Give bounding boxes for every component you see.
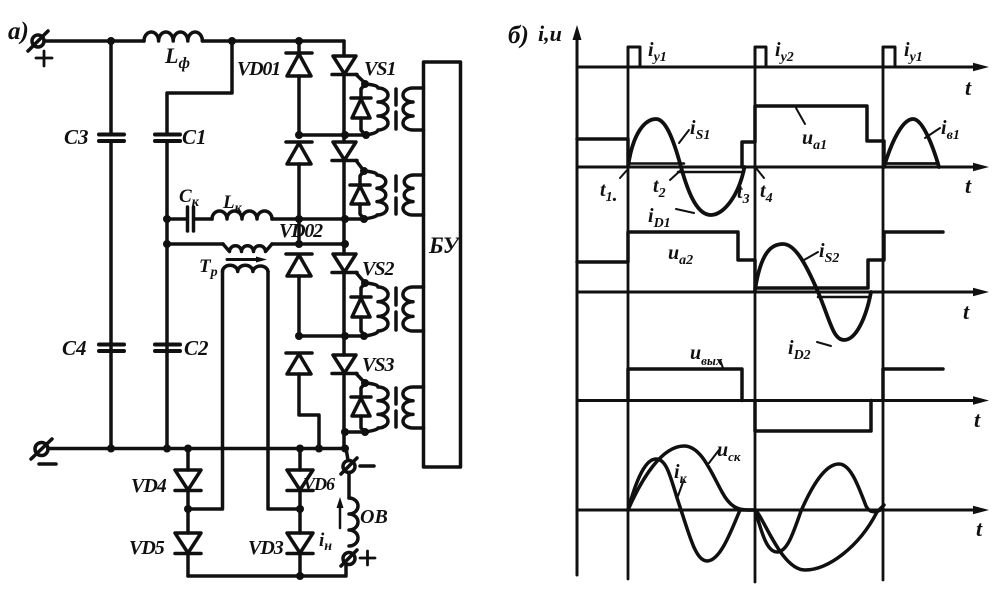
time axis 5 <box>577 509 975 512</box>
leader iS2 <box>804 252 818 260</box>
pulse transformer T2 secondary <box>403 175 423 215</box>
node C1 column Lk branch <box>163 215 171 223</box>
svg-text:VS3: VS3 <box>362 354 394 376</box>
svg-text:БУ: БУ <box>428 233 462 258</box>
leader ua1 <box>796 108 805 124</box>
wire top rail right <box>202 39 344 43</box>
diode VD02 <box>286 252 312 256</box>
wire Tr secondary right leg <box>268 272 300 510</box>
control unit BU box <box>424 62 461 467</box>
voltage usk curve <box>628 446 884 570</box>
capacitor Ck <box>186 207 190 231</box>
node rail C4 <box>107 445 115 453</box>
wire Tr to VS column <box>272 242 345 246</box>
svg-text:С1: С1 <box>182 125 207 149</box>
bottom rail <box>48 447 345 451</box>
svg-text:С3: С3 <box>64 125 89 149</box>
pulse transformer T1 core <box>394 89 398 105</box>
leader t1 <box>620 169 628 178</box>
node row3 bus VS column <box>341 332 349 340</box>
leader iD1 <box>676 209 694 213</box>
node top rail VD01 <box>295 37 303 45</box>
node rail C2 <box>163 445 171 453</box>
svg-text:t: t <box>965 173 972 198</box>
node rail VD chain jog <box>315 445 323 453</box>
svg-text:t: t <box>965 75 972 100</box>
terminal OV plus <box>343 553 355 565</box>
voltage uvyh trace <box>628 369 742 401</box>
pulse transformer T1 secondary <box>403 88 424 130</box>
thyristor row2 <box>333 142 356 160</box>
node gate4 <box>361 379 369 387</box>
capacitor C1 <box>155 133 180 137</box>
current iS1 curve <box>628 119 745 215</box>
diode VD3 <box>298 509 302 533</box>
inductor Lk <box>212 211 272 219</box>
input terminal plus <box>32 35 44 47</box>
node VS column loop4 <box>341 428 349 436</box>
svg-text:i,u: i,u <box>538 21 562 46</box>
node Lk line VS column <box>341 215 349 223</box>
svg-text:С4: С4 <box>62 336 87 360</box>
svg-text:VD01: VD01 <box>237 58 280 80</box>
pulse transformer T4 primary <box>365 383 388 432</box>
time axis 4 <box>577 399 975 402</box>
svg-text:VS1: VS1 <box>364 58 395 80</box>
svg-text:t: t <box>974 407 981 432</box>
transformer Tr secondary <box>223 265 269 271</box>
pulse transformer T3 primary <box>365 283 388 336</box>
node loop4 <box>361 428 369 436</box>
wire row3 bottom bus <box>299 334 366 338</box>
transformer Tr primary <box>223 244 272 252</box>
inductor Lf <box>144 32 202 41</box>
current arrow in <box>339 503 342 528</box>
time axis 1 <box>577 66 975 69</box>
diode gate4 clamp <box>361 383 365 397</box>
diode VD5 <box>186 509 190 533</box>
svg-text:VD3: VD3 <box>248 537 284 559</box>
wire to OV winding <box>347 473 351 499</box>
current iS2 curve <box>755 244 871 340</box>
svg-text:ОВ: ОВ <box>360 506 388 528</box>
leader iB1 <box>925 128 940 138</box>
transformer Tr core <box>227 258 260 261</box>
node rail VD4 <box>184 445 192 453</box>
vertical axis <box>576 36 579 575</box>
node rail VD6 <box>296 445 304 453</box>
thyristor VS2 <box>333 254 356 272</box>
pulse transformer T4 secondary <box>403 387 424 428</box>
leader t2 <box>670 170 681 180</box>
thyristor VS1 <box>342 41 346 56</box>
pulse iy2 <box>755 47 766 67</box>
node Tr line VS column <box>341 240 349 248</box>
output terminal minus left <box>35 443 48 456</box>
diode gate2 clamp <box>360 171 364 185</box>
wire top rail left <box>44 39 144 43</box>
wire row1 bottom bus <box>299 133 366 137</box>
pulse iy1 first <box>628 47 640 67</box>
node VD6 VD3 junction <box>296 505 304 513</box>
diode row4 left <box>286 351 312 355</box>
diode VD4 <box>186 449 190 471</box>
wire Ck to Lk <box>195 217 212 221</box>
wire VD chain bottom jog <box>299 374 319 449</box>
pulse transformer T3 secondary <box>403 287 424 331</box>
svg-text:t: t <box>963 299 970 324</box>
current iB1 curve <box>884 119 939 167</box>
wire bottom return <box>188 565 346 576</box>
node row3 bus VD column <box>295 332 303 340</box>
node gate3 <box>361 279 369 287</box>
leader iD2 <box>817 342 831 346</box>
svg-text:VS2: VS2 <box>362 258 394 280</box>
wire rail to OV terminal <box>346 449 348 461</box>
leader uvyh <box>720 360 723 368</box>
svg-text:t: t <box>976 516 983 541</box>
pulse iy1 second <box>883 47 895 67</box>
gridline t1 <box>627 67 630 579</box>
node rail VS column <box>341 445 349 453</box>
node top rail C1 branch <box>228 37 236 45</box>
svg-text:VD02: VD02 <box>279 220 323 242</box>
node bottom wire VD3 <box>296 572 304 580</box>
thyristor VS3 <box>333 355 356 373</box>
node row1 bus loop1 <box>362 131 370 139</box>
node C1 column Tr branch <box>163 240 171 248</box>
wire Ck branch <box>167 217 186 221</box>
node Lk line loop2 <box>360 215 368 223</box>
time axis 3 <box>577 291 975 294</box>
node VD01 cathode line <box>295 131 303 139</box>
wire C1 feed <box>167 41 232 132</box>
node gate2 <box>360 167 368 175</box>
capacitor C2 <box>155 343 180 347</box>
wire Lk to VS column <box>272 217 366 221</box>
node VD4 VD5 junction <box>184 505 192 513</box>
node row1 bus VS column <box>341 131 349 139</box>
node row3 bus loop3 <box>360 332 368 340</box>
leader ik <box>678 482 683 496</box>
capacitor C4 <box>99 343 124 347</box>
capacitor C3 <box>109 41 113 132</box>
gridline period3 <box>882 67 885 580</box>
gridline t4 <box>754 67 757 582</box>
wire Tr branch <box>167 242 223 246</box>
terminal OV minus <box>343 461 355 473</box>
winding OV <box>349 498 358 546</box>
svg-text:VD4: VD4 <box>131 475 167 497</box>
voltage ua2 trace <box>577 232 755 288</box>
time axis 2 <box>577 166 975 169</box>
node Lk line VD column <box>295 215 303 223</box>
leader t4 <box>756 168 764 178</box>
node top rail C3 <box>107 37 115 45</box>
diode row2 left <box>286 140 312 144</box>
wire Tr secondary left leg <box>188 272 223 510</box>
pulse transformer T2 core <box>394 176 398 191</box>
diode VD6 <box>298 449 302 471</box>
current ik curve <box>628 459 883 561</box>
node gate1 <box>361 80 369 88</box>
node Tr line VD column <box>295 240 303 248</box>
svg-text:VD5: VD5 <box>129 537 165 559</box>
pulse transformer T2 primary <box>364 171 387 219</box>
diode gate1 clamp <box>361 84 365 98</box>
svg-text:С2: С2 <box>184 336 209 360</box>
svg-text:б): б) <box>508 22 529 49</box>
diode VD01 <box>297 41 301 53</box>
leader iS1 <box>679 130 689 143</box>
diode gate3 clamp <box>361 283 365 297</box>
voltage ua1 trace <box>577 139 628 167</box>
svg-text:а): а) <box>8 18 29 45</box>
pulse transformer T1 primary <box>365 84 388 135</box>
svg-text:VD6: VD6 <box>303 474 335 494</box>
pulse transformer T4 core <box>394 388 398 404</box>
wire loop4 bottom <box>345 430 365 434</box>
leader usk <box>709 450 719 463</box>
pulse transformer T3 core <box>394 288 398 305</box>
